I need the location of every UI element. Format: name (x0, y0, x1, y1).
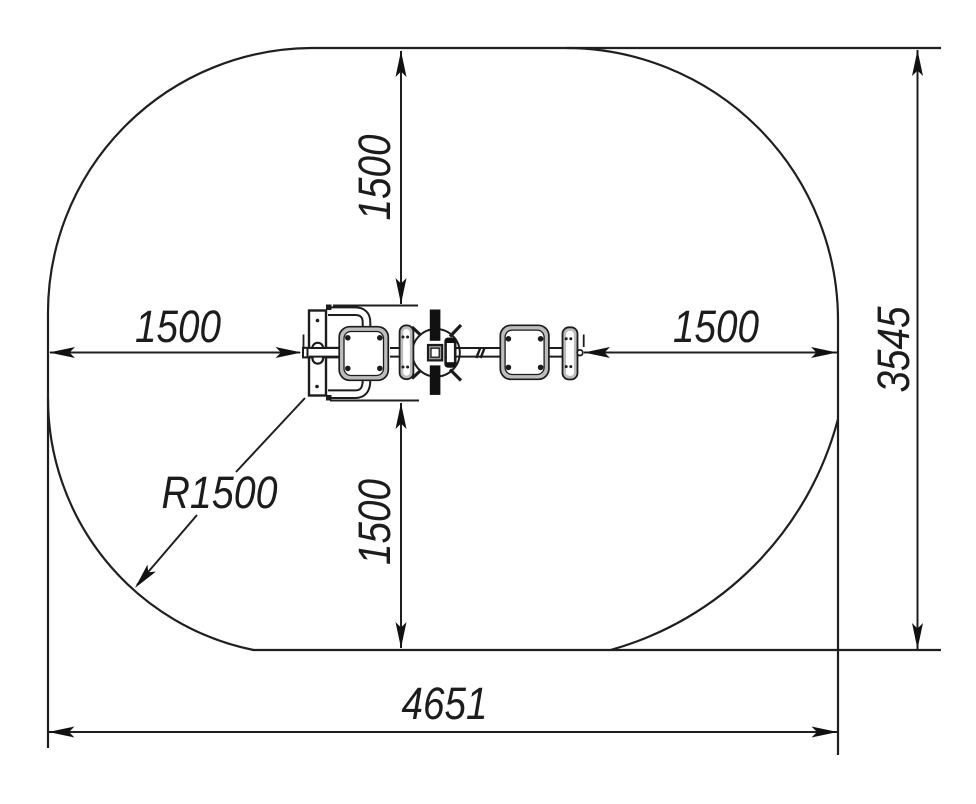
bearing clamp on plate (313, 343, 324, 364)
arrow down 3545 (912, 623, 923, 649)
dimension line horizontal 4651 bottom (49, 731, 838, 733)
corner arc bottom-left R1500 (48, 399, 253, 651)
arrow right at shape right edge (811, 347, 837, 358)
hub outer square (428, 345, 442, 360)
pedal black bar (430, 310, 441, 395)
dimension line horizontal 1500 right (584, 352, 837, 354)
wheel spoke bottom-right (450, 370, 461, 381)
axle right end circle (577, 350, 583, 356)
crank clamp right of hub (446, 339, 456, 367)
corner arc top-right R1500 (567, 48, 838, 321)
beam across plate redraw (309, 349, 343, 357)
hub inner white square (431, 348, 439, 357)
safety zone outline: left edge + left extension line down (47, 316, 49, 748)
left mounting plate (309, 311, 326, 396)
plate hole top (316, 319, 320, 323)
svg-text:1500: 1500 (673, 301, 759, 352)
svg-text:R1500: R1500 (162, 467, 278, 518)
arrowheads (49, 50, 924, 738)
svg-text:3545: 3545 (868, 306, 919, 393)
beam left end cap (307, 347, 309, 358)
pad2 holes (565, 337, 568, 340)
arrow R1500 at arc (131, 565, 156, 592)
arrow left at shape left edge (49, 347, 75, 358)
arrow up at zone bottom (396, 403, 407, 429)
plate hole bottom (315, 385, 319, 389)
svg-text:1500: 1500 (349, 135, 400, 221)
arrow left at equipment right (584, 347, 610, 358)
axle beam wheel to seat2 (456, 348, 500, 357)
seat2 bolt holes (506, 336, 512, 342)
svg-text:1500: 1500 (135, 301, 221, 352)
corner arc top-left R1500 (48, 48, 311, 316)
clamp bottom cap (445, 362, 455, 367)
bar white notch above hub (429, 341, 441, 345)
tube end cap bottom (326, 395, 332, 401)
leader line R1500 lower segment (137, 515, 197, 585)
bar white notch below hub (429, 361, 441, 365)
dimension line horizontal 1500 left (50, 352, 300, 354)
safety zone outline: top edge + top extension line (311, 47, 941, 49)
footrest pad 1 (400, 325, 414, 379)
tick line above left beam end (303, 335, 305, 350)
axle beam between seat1 and pad1 (390, 348, 400, 357)
handlebar U-frame tube (328, 311, 367, 394)
dimension line vertical 1500 top (400, 51, 402, 304)
extension line top of equipment zone (333, 305, 418, 307)
seat plate 2 (right) (500, 325, 549, 379)
dimension line vertical 1500 bottom (400, 403, 402, 648)
arrow right 4651 (812, 727, 838, 738)
extension line bottom of equipment zone (330, 400, 419, 402)
arrow up 3545 (912, 50, 923, 76)
safety zone outline: right edge + right extension line down (837, 321, 839, 755)
tube end cap top (326, 305, 332, 311)
seat1 bolt holes (345, 335, 351, 341)
footrest pad 2 (563, 327, 578, 379)
svg-text:1500: 1500 (349, 479, 400, 565)
corner arc bottom-right R1500 (611, 419, 839, 650)
safety zone outline: bottom edge + bottom extension line (253, 649, 941, 651)
arrow right at equipment left (276, 347, 302, 358)
wheel spoke bottom-left (412, 371, 420, 379)
leader line R1500 upper segment (236, 398, 305, 472)
arrow up at top edge (396, 51, 407, 77)
beam break marks (476, 348, 484, 358)
axle beam seat2 to pad2 (549, 348, 563, 357)
pad1 holes (402, 336, 405, 339)
tick line above right beam end (583, 335, 585, 348)
arrow down at bottom edge (396, 622, 407, 648)
arrow left 4651 (49, 727, 75, 738)
wheel spoke top-left (412, 327, 420, 335)
wheel spoke top-right (450, 325, 461, 337)
arrow down at zone top (396, 278, 407, 304)
axle beam left segment (303, 348, 343, 358)
seat plate 1 (left) (339, 327, 388, 381)
svg-text:4651: 4651 (402, 678, 488, 729)
wheel circle (412, 329, 460, 377)
clamp top cap (445, 338, 455, 343)
dimension line vertical 3545 right (917, 50, 919, 649)
